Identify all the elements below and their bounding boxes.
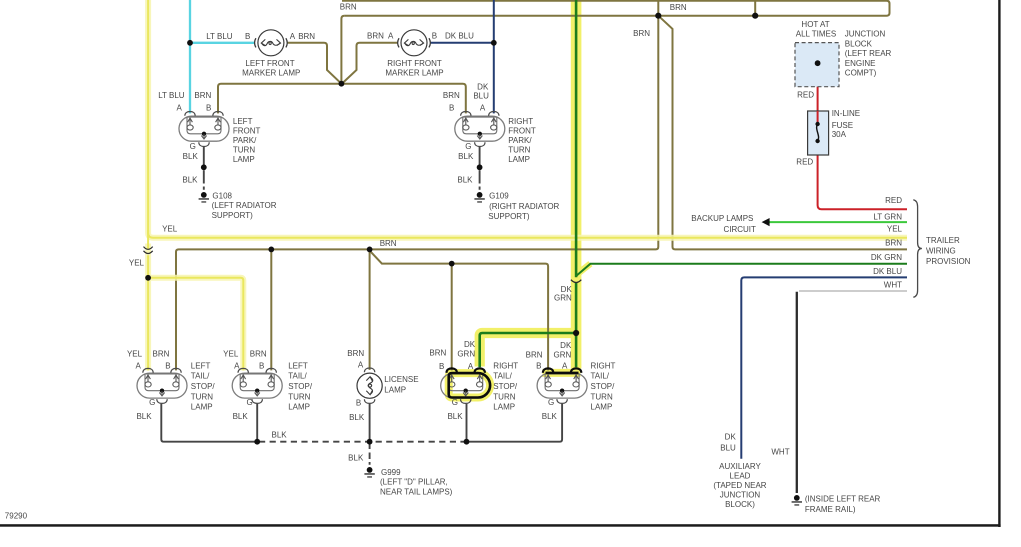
highlighter glow on DK GRN circuit <box>449 0 591 398</box>
svg-text:B: B <box>536 362 541 371</box>
splice dot BLK ground bus at L2 <box>254 439 260 445</box>
svg-text:TURN: TURN <box>288 392 310 401</box>
svg-text:NEAR TAIL LAMPS): NEAR TAIL LAMPS) <box>380 487 453 496</box>
svg-text:A: A <box>480 104 486 113</box>
ground G999 <box>364 467 374 478</box>
svg-text:ALL TIMES: ALL TIMES <box>796 29 836 38</box>
svg-text:G108: G108 <box>212 191 232 200</box>
wire DK BLU trailer row + auxiliary lead drop <box>741 277 907 458</box>
svg-text:BRN: BRN <box>443 91 460 100</box>
wire RED fuse to trailer RED row <box>818 141 907 209</box>
connector: left tail/stop/turn lamp 2 <box>232 368 282 403</box>
svg-text:STOP/: STOP/ <box>191 382 216 391</box>
svg-text:LAMP: LAMP <box>191 403 213 412</box>
svg-text:G: G <box>246 398 252 407</box>
svg-text:LT BLU: LT BLU <box>206 32 233 41</box>
splice dot BLK ground bus at R1 <box>464 439 470 445</box>
lamp: left front marker lamp <box>255 30 288 56</box>
wire BRN marker lamp R pin A to V junction <box>342 43 397 84</box>
svg-text:PARK/: PARK/ <box>508 136 532 145</box>
wire BRN park/turn feed y=83.7 between both front park lamps <box>218 84 466 114</box>
svg-text:BLK: BLK <box>272 431 288 440</box>
wire BLK solid ground bus to tail lamp R2 <box>467 404 563 442</box>
wire BRN right bus to trailer: from top junction diagonal down x=672.5 then right to trailer edge <box>658 16 907 250</box>
wire BRN lower branch y=263.6 to tail lamps R1 R2 <box>370 251 548 371</box>
junction block (left rear engine compt) <box>795 43 839 87</box>
splice dot BRN top bus left <box>655 13 661 19</box>
lamp: license lamp <box>357 368 382 403</box>
svg-text:BLK: BLK <box>542 412 558 421</box>
svg-text:(RIGHT RADIATOR: (RIGHT RADIATOR <box>489 202 559 211</box>
svg-text:RIGHT: RIGHT <box>508 117 533 126</box>
wire BLK dashed ground bus <box>259 441 467 443</box>
svg-text:RIGHT: RIGHT <box>591 361 616 370</box>
arrowhead backup lamps <box>762 218 770 226</box>
svg-text:B: B <box>432 31 437 40</box>
svg-text:G109: G109 <box>489 191 509 200</box>
wire LT GRN backup lamps circuit row <box>769 221 907 223</box>
svg-text:BLK: BLK <box>348 454 364 463</box>
splice dot BRN top bus right <box>752 13 758 19</box>
svg-text:G: G <box>548 398 554 407</box>
wire BRN stub above junction x=658.3 <box>657 0 659 16</box>
svg-text:LEFT: LEFT <box>191 361 211 370</box>
splice dot junction block <box>815 60 821 66</box>
svg-text:LT BLU: LT BLU <box>158 91 185 100</box>
svg-text:LICENSE: LICENSE <box>384 375 418 384</box>
svg-text:BLK: BLK <box>457 176 473 185</box>
svg-text:BACKUP LAMPS: BACKUP LAMPS <box>691 214 753 223</box>
halo for YEL wires <box>148 0 907 370</box>
svg-text:JUNCTION: JUNCTION <box>845 30 886 39</box>
ground G109 <box>474 192 484 203</box>
svg-text:HOT AT: HOT AT <box>801 20 829 29</box>
wire YEL branch to tail lamp L2 pin A <box>148 278 243 371</box>
svg-text:RIGHT FRONT: RIGHT FRONT <box>387 59 442 68</box>
svg-text:DK: DK <box>561 285 573 294</box>
svg-text:BLK: BLK <box>349 413 365 422</box>
splice dot BRN bus / license <box>367 247 373 253</box>
wire BRN top bus y=15.7 with U-turn to top edge line <box>342 1 890 16</box>
connector: right tail/stop/turn lamp 1 (highlighted) <box>441 368 491 403</box>
wire BLK tail lamp L1 ground to splice <box>161 404 257 442</box>
wire DK GRN trailer row <box>576 264 907 276</box>
svg-text:BRN: BRN <box>340 2 357 11</box>
frame bottom border <box>0 524 1001 527</box>
wire BRN drop to license lamp pin A <box>369 249 371 370</box>
highlight thick black outline on tail lamp R1 inner shell <box>449 373 490 397</box>
svg-text:LAMP: LAMP <box>384 386 406 395</box>
wire DK BLU marker lamp R pin B to vertical x=493.8 <box>431 0 494 113</box>
svg-text:A: A <box>562 362 568 371</box>
svg-text:PARK/: PARK/ <box>233 136 257 145</box>
svg-text:IN-LINE: IN-LINE <box>832 109 860 118</box>
svg-text:A: A <box>468 362 474 371</box>
wire WHT trailer row <box>799 290 907 292</box>
svg-text:B: B <box>259 362 264 371</box>
svg-text:DK BLU: DK BLU <box>873 267 902 276</box>
ground (inside left rear frame rail) <box>792 495 802 506</box>
splice dot DK BLU <box>491 40 497 46</box>
svg-text:LAMP: LAMP <box>233 155 255 164</box>
svg-text:LEFT: LEFT <box>233 117 253 126</box>
svg-text:STOP/: STOP/ <box>288 382 313 391</box>
svg-text:ENGINE: ENGINE <box>845 59 876 68</box>
brace trailer wiring provision <box>913 200 922 298</box>
svg-text:DK: DK <box>464 340 476 349</box>
svg-text:BRN: BRN <box>526 350 543 359</box>
in-line connector on DK GRN wire (single arc) <box>571 280 581 283</box>
svg-text:(LEFT RADIATOR: (LEFT RADIATOR <box>212 201 277 210</box>
svg-text:A: A <box>290 32 296 41</box>
svg-text:BRN: BRN <box>670 3 687 12</box>
connector: left front park/turn lamp <box>179 112 229 147</box>
wire BLK tail lamp L2 ground to splice <box>256 404 258 442</box>
svg-text:GRN: GRN <box>457 349 475 358</box>
svg-text:BRN: BRN <box>298 32 315 41</box>
svg-text:GRN: GRN <box>554 350 572 359</box>
svg-text:FRONT: FRONT <box>233 126 261 135</box>
svg-text:G: G <box>452 398 458 407</box>
svg-text:G999: G999 <box>381 468 401 477</box>
connector: right front park/turn lamp <box>455 112 505 147</box>
svg-text:RED: RED <box>885 196 902 205</box>
svg-text:B: B <box>439 362 444 371</box>
svg-text:A: A <box>388 31 394 40</box>
svg-text:B: B <box>206 104 211 113</box>
svg-text:79290: 79290 <box>5 512 28 521</box>
svg-text:BRN: BRN <box>347 349 364 358</box>
svg-text:BRN: BRN <box>429 349 446 358</box>
wire DK GRN highlighted branch to tail lamp R1 pin A <box>480 333 576 367</box>
svg-text:SUPPORT): SUPPORT) <box>488 212 530 221</box>
svg-text:B: B <box>449 104 454 113</box>
svg-text:BRN: BRN <box>367 31 384 40</box>
svg-text:BLK: BLK <box>182 176 198 185</box>
splice dot BLK ground bus at license <box>367 439 373 445</box>
splice dot LT BLU <box>187 40 193 46</box>
svg-text:B: B <box>245 32 250 41</box>
svg-text:TURN: TURN <box>591 392 613 401</box>
svg-text:WIRING: WIRING <box>926 246 956 255</box>
wire BLK lamp FL ground to G108 <box>203 146 205 189</box>
svg-text:CIRCUIT: CIRCUIT <box>723 225 756 234</box>
svg-text:FRONT: FRONT <box>508 126 536 135</box>
wire BRN stub above junction x=755.2 <box>754 0 756 16</box>
highlight thick black top edge + pin arcs tail lamp R2 <box>546 372 579 375</box>
wire WHT vertical to ground inside left rear frame rail <box>796 292 798 493</box>
splice dot DK GRN highlighted <box>573 330 579 336</box>
svg-text:B: B <box>356 398 361 407</box>
svg-text:A: A <box>358 360 364 369</box>
svg-text:DK BLU: DK BLU <box>445 31 474 40</box>
svg-text:LEAD: LEAD <box>730 472 751 481</box>
svg-text:LAMP: LAMP <box>493 403 515 412</box>
lamp: right front marker lamp <box>398 30 431 56</box>
svg-text:TRAILER: TRAILER <box>926 236 960 245</box>
svg-text:BRN: BRN <box>633 29 650 38</box>
splice dot BLK G108 <box>201 164 207 170</box>
svg-text:LEFT: LEFT <box>288 361 308 370</box>
svg-text:G: G <box>465 142 471 151</box>
svg-text:GRN: GRN <box>554 294 572 303</box>
svg-text:BLK: BLK <box>183 152 199 161</box>
svg-text:STOP/: STOP/ <box>591 382 616 391</box>
svg-text:SUPPORT): SUPPORT) <box>212 211 254 220</box>
svg-text:LEFT FRONT: LEFT FRONT <box>245 59 294 68</box>
svg-text:LAMP: LAMP <box>288 403 310 412</box>
svg-text:G: G <box>190 142 196 151</box>
svg-text:BLK: BLK <box>447 412 463 421</box>
connector: left tail/stop/turn lamp 1 <box>137 368 187 403</box>
wire BRN drop to tail lamp L2 pin B <box>270 249 272 370</box>
svg-text:A: A <box>176 104 182 113</box>
wire BRN left bus drop: lamp L1 pin B up to bus to top junction <box>176 16 658 371</box>
svg-text:YEL: YEL <box>162 225 178 234</box>
wire RED junction block to fuse <box>817 63 819 124</box>
svg-text:FUSE: FUSE <box>832 121 853 130</box>
svg-text:DK: DK <box>725 432 737 441</box>
splice dot BRN bus / tail L2 <box>268 247 274 253</box>
svg-text:(LEFT REAR: (LEFT REAR <box>845 49 892 58</box>
svg-text:WHT: WHT <box>771 448 789 457</box>
svg-text:(LEFT "D" PILLAR,: (LEFT "D" PILLAR, <box>380 478 448 487</box>
svg-text:STOP/: STOP/ <box>493 382 518 391</box>
svg-text:RED: RED <box>796 158 813 167</box>
svg-text:BRN: BRN <box>194 91 211 100</box>
svg-text:DK GRN: DK GRN <box>871 253 902 262</box>
svg-text:A: A <box>234 362 240 371</box>
svg-text:B: B <box>165 362 170 371</box>
wire BLK dashed stub to G999 <box>369 445 371 465</box>
wire BLK tail lamp R1 ground drop <box>466 404 468 442</box>
svg-text:AUXILIARY: AUXILIARY <box>719 462 761 471</box>
svg-text:BLOCK: BLOCK <box>845 39 873 48</box>
highlight thick black pin arcs tail lamp R1 <box>447 368 485 372</box>
svg-text:YEL: YEL <box>223 350 239 359</box>
svg-text:COMPT): COMPT) <box>845 69 877 78</box>
splice dot BRN V junction <box>339 81 345 87</box>
splice dot YEL <box>145 275 151 281</box>
wire LT BLU vertical + branch to marker lamp L pin B <box>190 0 254 113</box>
svg-text:JUNCTION: JUNCTION <box>720 491 761 500</box>
svg-text:BRN: BRN <box>380 239 397 248</box>
svg-text:BLK: BLK <box>136 412 152 421</box>
svg-text:TURN: TURN <box>191 392 213 401</box>
ground G108 <box>199 192 209 203</box>
svg-text:TAIL/: TAIL/ <box>493 372 512 381</box>
svg-text:TAIL/: TAIL/ <box>591 372 610 381</box>
wire BLK lamp FR ground to G109 <box>479 146 481 189</box>
svg-text:30A: 30A <box>832 130 847 139</box>
svg-text:WHT: WHT <box>884 281 902 290</box>
wire BRN marker lamp L pin A to V junction <box>288 43 342 84</box>
svg-text:YEL: YEL <box>127 350 143 359</box>
svg-text:LAMP: LAMP <box>508 155 530 164</box>
svg-text:(INSIDE LEFT REAR: (INSIDE LEFT REAR <box>805 495 881 504</box>
svg-text:YEL: YEL <box>129 258 145 267</box>
svg-text:TURN: TURN <box>233 145 255 154</box>
svg-text:RED: RED <box>797 91 814 100</box>
svg-text:BLK: BLK <box>458 152 474 161</box>
splice dot BRN lower branch / tail R1 <box>449 261 455 267</box>
svg-text:TAIL/: TAIL/ <box>191 372 210 381</box>
svg-text:BLU: BLU <box>473 91 489 100</box>
connector: right tail/stop/turn lamp 2 (highlighted) <box>537 368 587 403</box>
svg-text:FRAME RAIL): FRAME RAIL) <box>805 505 856 514</box>
svg-text:(TAPED NEAR: (TAPED NEAR <box>713 481 766 490</box>
svg-text:LT GRN: LT GRN <box>873 212 902 221</box>
svg-text:MARKER LAMP: MARKER LAMP <box>242 69 300 78</box>
svg-text:A: A <box>136 362 142 371</box>
svg-text:TAIL/: TAIL/ <box>288 372 307 381</box>
svg-text:BRN: BRN <box>885 239 902 248</box>
wire BLK license lamp ground drop <box>369 403 371 442</box>
svg-text:TURN: TURN <box>508 145 530 154</box>
wire BRN vertical feed x=341.4 from top bus to V junction <box>341 16 344 84</box>
svg-text:RIGHT: RIGHT <box>493 361 518 370</box>
in-line connector on YEL wire (double arc) <box>144 247 153 254</box>
svg-text:BRN: BRN <box>153 350 170 359</box>
wire DK GRN highlighted vertical (core) <box>575 0 578 367</box>
svg-text:YEL: YEL <box>887 224 903 233</box>
svg-text:DK: DK <box>560 341 572 350</box>
svg-text:G: G <box>149 398 155 407</box>
svg-text:LAMP: LAMP <box>591 403 613 412</box>
svg-text:MARKER LAMP: MARKER LAMP <box>385 69 443 78</box>
svg-text:BLU: BLU <box>720 444 736 453</box>
frame right border <box>998 0 1000 527</box>
svg-text:BLK: BLK <box>233 412 249 421</box>
svg-text:BRN: BRN <box>250 350 267 359</box>
splice dot BLK G109 <box>477 164 483 170</box>
svg-text:BLOCK): BLOCK) <box>725 500 755 509</box>
svg-text:TURN: TURN <box>493 392 515 401</box>
in-line fuse 30A <box>808 111 829 155</box>
svg-text:PROVISION: PROVISION <box>926 257 971 266</box>
wire YEL main: top vertical, trailer branch, inline connector, to tail L1 pin A <box>148 0 907 238</box>
